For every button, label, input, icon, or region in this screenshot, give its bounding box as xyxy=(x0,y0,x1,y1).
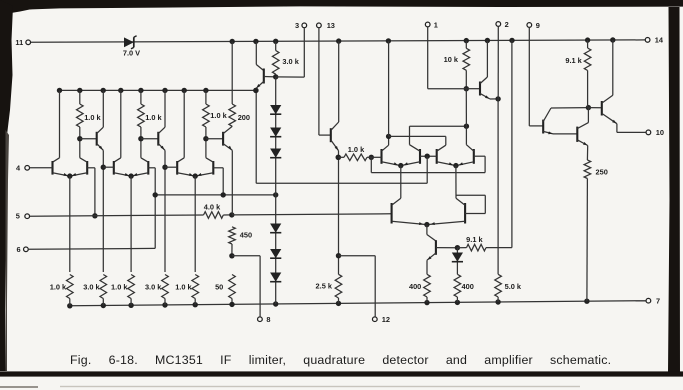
svg-text:1.0 k: 1.0 k xyxy=(145,113,162,122)
svg-text:7: 7 xyxy=(656,296,660,305)
svg-text:1.0 k: 1.0 k xyxy=(84,113,101,122)
svg-text:450: 450 xyxy=(240,230,252,239)
svg-text:1.0 k: 1.0 k xyxy=(348,145,365,154)
svg-text:13: 13 xyxy=(327,21,335,30)
svg-text:3: 3 xyxy=(295,21,299,30)
svg-text:400: 400 xyxy=(409,282,421,291)
svg-text:1: 1 xyxy=(434,20,438,29)
svg-text:50: 50 xyxy=(215,282,223,291)
svg-text:14: 14 xyxy=(655,36,664,45)
svg-text:6: 6 xyxy=(16,245,20,254)
svg-text:5.0 k: 5.0 k xyxy=(505,282,522,291)
svg-text:Fig. 6-18. MC1351 IF limiter,: Fig. 6-18. MC1351 IF limiter, quadrature… xyxy=(70,353,611,367)
svg-text:1.0 k: 1.0 k xyxy=(210,111,227,120)
svg-text:10 k: 10 k xyxy=(444,55,459,64)
svg-text:8: 8 xyxy=(266,315,270,324)
svg-text:10: 10 xyxy=(656,128,664,137)
svg-text:9: 9 xyxy=(536,21,540,30)
svg-text:4.0 k: 4.0 k xyxy=(204,203,221,212)
svg-text:9.1 k: 9.1 k xyxy=(565,56,582,65)
svg-text:2.5 k: 2.5 k xyxy=(316,282,333,291)
svg-text:7.0 V: 7.0 V xyxy=(123,49,140,58)
svg-text:9.1 k: 9.1 k xyxy=(466,235,483,244)
svg-text:1.0 k: 1.0 k xyxy=(50,282,67,291)
svg-text:250: 250 xyxy=(596,168,608,177)
svg-text:5: 5 xyxy=(16,212,20,221)
svg-text:2: 2 xyxy=(505,20,509,29)
svg-text:3.0 k: 3.0 k xyxy=(145,282,162,291)
svg-text:12: 12 xyxy=(382,315,390,324)
svg-text:1.0 k: 1.0 k xyxy=(111,282,128,291)
svg-text:3.0 k: 3.0 k xyxy=(83,282,100,291)
svg-text:1.0 k: 1.0 k xyxy=(175,282,192,291)
svg-text:200: 200 xyxy=(238,113,250,122)
svg-text:3.0 k: 3.0 k xyxy=(282,57,299,66)
svg-text:400: 400 xyxy=(462,282,474,291)
svg-text:11: 11 xyxy=(15,38,23,47)
